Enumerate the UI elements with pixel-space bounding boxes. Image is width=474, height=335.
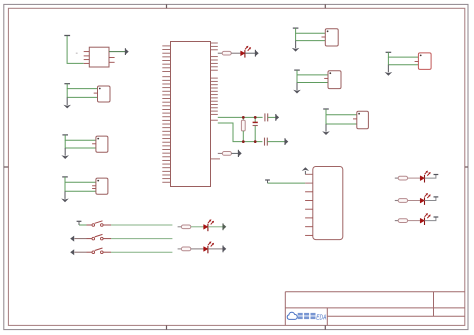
capacitor C series bottom xyxy=(265,138,268,146)
resistor R rowA xyxy=(181,225,190,229)
U2 left pin 2 xyxy=(305,182,313,184)
J7 pin stub 1 xyxy=(415,61,419,63)
wire R to LED rowB xyxy=(191,248,204,250)
switch SW1 xyxy=(87,221,112,227)
U1 left pin 18 xyxy=(162,108,170,110)
zone tick top 2 xyxy=(324,4,326,8)
wire SW1 left xyxy=(79,224,87,226)
U5 left pin 3 xyxy=(84,59,90,61)
U1 right pin r19 xyxy=(211,107,218,109)
U1 right pin r1 xyxy=(211,42,218,44)
net port arrow U5 xyxy=(125,48,128,55)
tiny text mark xyxy=(76,53,78,54)
wire stub left rowR1 xyxy=(395,177,398,179)
wire J3 bottom xyxy=(65,140,96,148)
wire J4 top xyxy=(65,177,96,182)
junction dot top left xyxy=(242,116,245,119)
wire SW2 right xyxy=(111,238,172,240)
U1 left pin 20 xyxy=(162,116,170,118)
resistor R rowR2 xyxy=(398,199,407,203)
wire R to LED rowA xyxy=(191,226,204,228)
ground J3 xyxy=(61,148,69,159)
U1 left pin 23 xyxy=(162,127,170,129)
wire J8 top xyxy=(326,109,357,115)
U1 right pin r24 stub xyxy=(211,158,221,160)
U2 left pin 7 xyxy=(305,226,313,228)
U1 left pin 14 xyxy=(162,94,170,96)
U1 left pin 3 xyxy=(162,52,170,54)
U1 left pin 27 xyxy=(162,141,170,143)
ground J4 xyxy=(61,191,69,202)
net port arrow left SW3 xyxy=(70,249,74,255)
J8 pin stub 1 xyxy=(353,118,357,120)
IC U5 body xyxy=(89,47,109,67)
power flag bar comp1 xyxy=(64,35,70,37)
wire cap to port top xyxy=(268,116,276,118)
connector J7 body xyxy=(418,53,431,70)
wire stub rowA xyxy=(178,226,182,228)
J2 pin stub 1 xyxy=(94,92,98,94)
U2 left pin 1 xyxy=(305,173,313,175)
power flag U2 pin2 xyxy=(265,180,270,183)
power flag bar SW1 xyxy=(77,221,82,225)
ground J2 xyxy=(63,97,71,108)
LED D rowR3 xyxy=(420,213,431,225)
U5 left pin 1 xyxy=(84,51,90,53)
connector J8 body xyxy=(357,111,369,129)
wire R to LED rowR2 xyxy=(408,200,421,202)
U2 left pin 5 xyxy=(305,208,313,210)
net port arrow rowA xyxy=(223,223,226,230)
title block middle line xyxy=(285,307,465,309)
resistor R row2 xyxy=(222,152,231,156)
power flag bar rowR3 xyxy=(434,216,439,218)
J5 pin stub 1 xyxy=(322,36,326,38)
U1 left pin 10 xyxy=(162,79,170,81)
U1 right pin r13 xyxy=(211,87,218,89)
U5 left pin 2 xyxy=(84,55,90,57)
wire U1 pin to R row2 xyxy=(218,152,223,154)
U1 left pin 6 xyxy=(162,63,170,65)
LED D rowR1 xyxy=(420,171,431,183)
junction dot top right xyxy=(254,116,257,119)
U1 left pin 26 xyxy=(162,138,170,140)
zone tick right xyxy=(465,166,468,168)
wire R to LED rowR1 xyxy=(408,177,421,179)
wire J2 bottom xyxy=(67,89,97,98)
wire LED to flag rowR2 xyxy=(425,197,436,200)
wire R to LED row1 xyxy=(231,52,240,54)
power flag bar J3 xyxy=(62,134,68,136)
wire cap to port bottom xyxy=(267,141,285,143)
U1 right pin r3 xyxy=(211,49,218,51)
logo text jia glyph xyxy=(298,313,303,319)
U1 right pin r18 xyxy=(211,104,218,106)
U1 right pin r12 xyxy=(211,84,218,86)
resistor R vertical xyxy=(241,117,245,141)
power flag bar J5 xyxy=(293,27,299,29)
zone tick top 1 xyxy=(166,4,168,8)
U5 left pin 4 xyxy=(84,62,90,64)
U1 left pin 19 xyxy=(162,112,170,114)
U1 left pin 35 xyxy=(162,170,170,172)
U1 left pin 7 xyxy=(162,67,170,69)
wire J2 top xyxy=(67,84,97,89)
switch SW3 xyxy=(87,248,112,254)
U1 right pin r10 xyxy=(211,77,218,79)
zone tick bottom 2 xyxy=(324,325,326,329)
title block right cell divider xyxy=(433,292,435,317)
net port arrow row1 xyxy=(255,50,258,57)
wire U1 to RC top xyxy=(218,116,263,118)
resistor R rowB xyxy=(181,247,190,251)
U1 left pin 16 xyxy=(162,101,170,103)
IC U2 body xyxy=(313,167,343,240)
wire LED to flag rowR1 xyxy=(425,175,436,178)
U1 right pin r5 xyxy=(211,56,218,58)
logo text chuang glyph xyxy=(311,313,316,319)
connector J2 body xyxy=(98,86,111,102)
U1 left pin 24 xyxy=(162,130,170,132)
U2 left pin 3 xyxy=(305,191,313,193)
U1 left pin 28 xyxy=(162,145,170,147)
net port arrow up U2 xyxy=(302,167,309,171)
power flag bar rowR2 xyxy=(434,196,439,198)
U1 left pin 8 xyxy=(162,70,170,72)
zone tick left xyxy=(4,166,9,168)
title block top line xyxy=(285,291,465,293)
wire J5 bottom xyxy=(296,33,326,40)
LED D row1 xyxy=(241,46,252,58)
wire J7 top xyxy=(388,52,418,57)
U5 right pin stub 1 xyxy=(109,57,115,59)
U1 left pin 29 xyxy=(162,149,170,151)
U1 right pin r9 xyxy=(211,69,218,71)
capacitor C shunt xyxy=(253,117,258,141)
wire U5 out xyxy=(109,51,126,53)
U1 left pin 25 xyxy=(162,134,170,136)
U1 left pin 22 xyxy=(162,123,170,125)
wire stub left rowR3 xyxy=(395,220,398,222)
U1 right pin r7 xyxy=(211,62,218,64)
wire SW2 left xyxy=(74,238,86,240)
power flag bar J8 xyxy=(323,108,329,110)
connector J5 body xyxy=(325,29,338,46)
switch SW2 xyxy=(87,234,112,240)
junction dot bottom right xyxy=(254,140,257,143)
U1 right pin r16 xyxy=(211,97,218,99)
U1 left pin 12 xyxy=(162,87,170,89)
U1 left pin 13 xyxy=(162,90,170,92)
wire SW3 left xyxy=(74,251,86,253)
U2 left pin 8 xyxy=(305,234,313,236)
title block lower line xyxy=(327,315,465,317)
MCU U1 body xyxy=(171,42,211,187)
wire LED to port rowA xyxy=(208,226,223,228)
junction dot bottom left xyxy=(242,140,245,143)
wire LED to port row1 xyxy=(245,52,256,54)
wire J3 top xyxy=(65,135,96,140)
U1 right pin r2 xyxy=(211,45,218,47)
LED D rowA xyxy=(204,219,215,231)
wire R to port row2 xyxy=(231,152,238,154)
U1 left pin 5 xyxy=(162,60,170,62)
U1 left pin 31 xyxy=(162,156,170,158)
J6 pin stub 1 xyxy=(324,77,328,79)
U1 left pin 17 xyxy=(162,105,170,107)
J3 pin stub 1 xyxy=(92,143,96,145)
power flag bar J4 xyxy=(62,176,68,178)
wire J7 bottom xyxy=(388,57,418,65)
U2 left pin 6 xyxy=(305,217,313,219)
U1 right pin r17 xyxy=(211,100,218,102)
power flag bar J7 xyxy=(386,51,392,53)
U1 right pin r21 xyxy=(211,113,218,115)
J4 pin stub 1 xyxy=(92,185,96,187)
power flag bar J6 xyxy=(294,69,300,71)
U1 left pin 30 xyxy=(162,152,170,154)
resistor R row1 xyxy=(222,51,231,55)
U1 left pin 2 xyxy=(162,49,170,51)
wire J6 top xyxy=(297,70,328,75)
U1 right pin r15 xyxy=(211,94,218,96)
ground J8 xyxy=(322,124,330,135)
U1 left pin 32 xyxy=(162,159,170,161)
title block left edge xyxy=(284,292,286,326)
U1 left pin 4 xyxy=(162,56,170,58)
resistor R rowR1 xyxy=(398,176,407,180)
LED D rowR2 xyxy=(420,193,431,205)
wire R to LED rowR3 xyxy=(408,220,421,222)
U1 right pin r14 xyxy=(211,90,218,92)
U1 left pin 36 xyxy=(162,174,170,176)
net port arrow left SW2 xyxy=(70,236,74,242)
U2 left pin 4 xyxy=(305,200,313,202)
net port arrow RC bottom xyxy=(285,138,288,145)
logo cloud icon xyxy=(287,312,297,319)
U1 left pin 11 xyxy=(162,83,170,85)
wire J6 bottom xyxy=(297,75,328,83)
wire stub rowB xyxy=(178,248,182,250)
svg-text:EDA: EDA xyxy=(316,312,326,321)
capacitor C series top xyxy=(265,113,268,121)
wire SW1 right xyxy=(111,224,172,226)
net port arrow RC top xyxy=(276,114,279,121)
logo text li glyph xyxy=(304,313,309,319)
U1 left pin 1 xyxy=(162,45,170,47)
wire U2 pin1 up xyxy=(304,171,306,174)
U5 right pin stub 2 xyxy=(109,61,115,63)
net port arrow row2 xyxy=(238,150,241,157)
zone tick bottom 1 xyxy=(166,325,168,329)
U1 left pin 37 xyxy=(162,178,170,180)
wire LED to flag rowR3 xyxy=(425,217,436,220)
U1 right pin r6 xyxy=(211,59,218,61)
ground J7 xyxy=(385,65,393,76)
wire J4 bottom xyxy=(65,182,96,191)
U1 right pin r20 xyxy=(211,110,218,112)
U1 right pin r8 xyxy=(211,66,218,68)
U1 left pin 21 xyxy=(162,119,170,121)
U1 left pin 34 xyxy=(162,167,170,169)
J4 pin stub 2 xyxy=(92,188,96,190)
wire J8 bottom xyxy=(326,115,357,124)
U1 left pin 15 xyxy=(162,98,170,100)
U1 left pin 9 xyxy=(162,76,170,78)
LED D rowB xyxy=(204,241,215,253)
connector J4 body xyxy=(96,178,108,194)
title block logo cell divider xyxy=(326,308,328,326)
wire U2 pin2 xyxy=(268,182,306,184)
power flag bar J2 xyxy=(64,83,70,85)
U1 right pin r22 stub xyxy=(211,119,218,121)
wire U1 to RC bottom elbow xyxy=(218,123,263,142)
ground J5 xyxy=(292,41,300,52)
wire stub left rowR2 xyxy=(395,200,398,202)
ground J6 xyxy=(293,83,301,94)
wire comp1 power rail xyxy=(67,36,84,64)
resistor R rowR3 xyxy=(398,219,407,223)
wire LED to port rowB xyxy=(208,248,223,250)
wire SW3 right xyxy=(111,251,172,253)
U1 left pin 33 xyxy=(162,163,170,165)
power flag bar rowR1 xyxy=(434,174,439,176)
U1 left pin 38 xyxy=(162,181,170,183)
U1 right pin r11 xyxy=(211,80,218,82)
connector J6 body xyxy=(328,71,341,89)
wire U1 pin to R row1 xyxy=(218,52,222,54)
connector J3 body xyxy=(96,136,108,152)
net port arrow rowB xyxy=(223,246,226,253)
wire J5 top xyxy=(296,28,326,33)
